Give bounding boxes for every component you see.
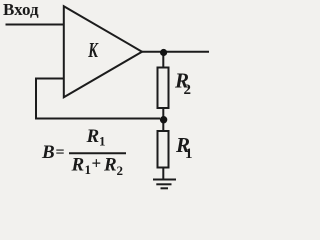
svg-text:2: 2 (184, 82, 192, 98)
svg-text:Вход: Вход (3, 0, 39, 19)
svg-text:1: 1 (99, 134, 106, 149)
svg-text:+: + (92, 154, 102, 173)
svg-text:R: R (103, 155, 117, 176)
svg-text:1: 1 (85, 162, 92, 177)
svg-text:R: R (71, 155, 85, 176)
svg-text:К: К (88, 38, 99, 61)
svg-text:1: 1 (185, 146, 193, 162)
svg-text:R: R (86, 126, 100, 147)
svg-text:B: B (41, 142, 55, 163)
svg-text:2: 2 (117, 163, 124, 178)
svg-text:=: = (56, 144, 65, 161)
